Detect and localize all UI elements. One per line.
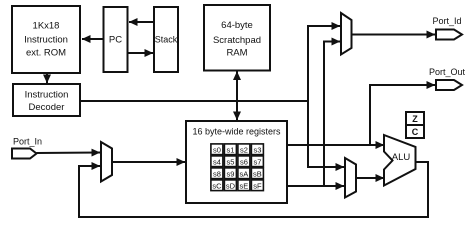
svg-text:Port_Id: Port_Id [432, 16, 461, 26]
wire registers lower output to operand mux [287, 185, 344, 187]
wire port mux to Port_Id [352, 34, 436, 36]
register cells s0-sF [211, 144, 264, 191]
wire Port_In to input mux [37, 152, 101, 155]
svg-text:Scratchpad: Scratchpad [213, 35, 261, 46]
svg-text:s0: s0 [213, 145, 221, 154]
svg-text:sD: sD [226, 181, 236, 190]
svg-text:Port_In: Port_In [13, 137, 42, 147]
svg-text:16 byte-wide registers: 16 byte-wide registers [192, 127, 281, 137]
instruction decoder box [13, 84, 80, 116]
instruction ROM box [12, 6, 80, 73]
svg-text:s6: s6 [240, 157, 248, 166]
Port_Id port symbol [436, 30, 462, 40]
ALU [384, 135, 416, 186]
wire PC to ROM [82, 38, 104, 40]
svg-text:sE: sE [240, 181, 249, 190]
svg-text:s2: s2 [240, 145, 248, 154]
svg-text:Decoder: Decoder [29, 102, 65, 113]
svg-text:ext. ROM: ext. ROM [26, 48, 66, 59]
svg-text:Z: Z [412, 114, 418, 124]
svg-text:s5: s5 [226, 157, 234, 166]
svg-text:s1: s1 [226, 145, 234, 154]
svg-text:64-byte: 64-byte [221, 20, 253, 31]
svg-text:C: C [412, 127, 419, 137]
svg-text:s9: s9 [226, 169, 234, 178]
svg-text:Stack: Stack [155, 35, 178, 45]
svg-text:PC: PC [109, 35, 122, 46]
wire PC to Stack [128, 52, 154, 54]
wire ROM to decoder [46, 73, 48, 83]
wire decoder output [80, 100, 309, 102]
scratchpad RAM box [204, 5, 270, 71]
svg-text:sF: sF [253, 181, 262, 190]
Z flag box [406, 112, 424, 125]
Port_In port symbol [12, 149, 37, 159]
C flag box [406, 125, 424, 138]
svg-text:s7: s7 [253, 157, 261, 166]
wire to port mux input 1 [307, 25, 340, 27]
svg-text:s8: s8 [213, 169, 221, 178]
input mux [101, 142, 112, 182]
wire Stack to PC [129, 21, 154, 23]
wire to operand mux input 1 [307, 166, 344, 168]
wire ALU output feedback loop [79, 162, 428, 217]
wire to port mux input 2 [323, 41, 340, 43]
svg-text:Port_Out: Port_Out [429, 67, 466, 77]
port mux [341, 13, 352, 55]
wire RAM to registers (bidirectional) [236, 72, 238, 121]
operand mux [345, 158, 356, 198]
PC box [104, 7, 128, 72]
Port_Out port symbol [436, 80, 462, 90]
svg-text:Instruction: Instruction [25, 90, 69, 101]
wire input mux to registers [112, 161, 185, 163]
svg-text:sA: sA [240, 169, 249, 178]
wire operand mux to ALU [356, 177, 384, 179]
wire decoder net vertical [307, 25, 309, 168]
wire register net vertical [323, 42, 325, 188]
svg-text:s3: s3 [253, 145, 261, 154]
svg-text:ALU: ALU [392, 152, 411, 163]
Stack box [154, 7, 178, 72]
wire registers upper output to ALU [287, 144, 384, 146]
svg-text:sB: sB [253, 169, 262, 178]
svg-text:1Kx18: 1Kx18 [33, 21, 60, 32]
svg-text:sC: sC [212, 181, 222, 190]
svg-text:RAM: RAM [226, 48, 247, 59]
svg-text:Instruction: Instruction [24, 35, 68, 46]
registers box [186, 121, 287, 203]
wire registers to Port_Out [370, 85, 435, 145]
svg-text:s4: s4 [213, 157, 221, 166]
